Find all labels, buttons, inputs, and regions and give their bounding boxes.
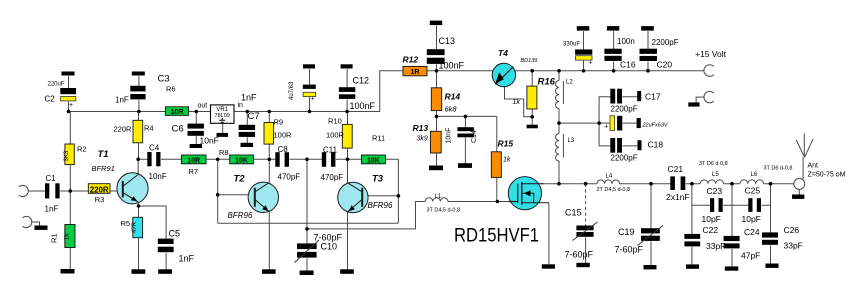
svg-text:100R: 100R [274,131,293,140]
svg-text:BFR96: BFR96 [368,201,393,210]
svg-text:C15: C15 [565,208,582,218]
svg-text:C25: C25 [745,186,761,196]
svg-text:1nF: 1nF [179,254,195,264]
ground MOSFET source [542,264,555,268]
svg-text:10pF: 10pF [702,214,721,224]
+15V connector [704,65,714,77]
svg-text:RD15HVF1: RD15HVF1 [454,225,539,247]
wire rail 9V y111 [69,71,404,112]
wire C16 column [613,31,615,71]
svg-text:R13: R13 [413,123,429,133]
capacitor C25 10pF [748,198,752,212]
svg-text:7-60pF: 7-60pF [565,250,594,260]
wire R14 column [436,71,438,117]
capacitor C24 47pF [724,236,740,241]
svg-text:1nF: 1nF [45,205,59,214]
transistor T3 BFR96 [338,182,368,212]
wire gnd connector 2 [32,222,39,226]
svg-text:3T D6 d-0,8: 3T D6 d-0,8 [764,166,793,172]
svg-text:2200pF: 2200pF [611,154,638,163]
resistor R3 220R [88,184,110,194]
svg-text:10nF: 10nF [446,128,453,144]
capacitor 4u7/63 [303,85,316,89]
wire C13 column [436,26,438,71]
svg-text:out: out [198,103,208,110]
svg-text:100nF: 100nF [439,61,465,71]
wire L3 column [558,123,560,184]
svg-text:R4: R4 [144,124,154,133]
svg-text:C6: C6 [172,124,184,135]
resistor R11 10K [361,155,385,164]
svg-text:C16: C16 [620,60,636,70]
capacitor C19 7-60pF trimmer [641,228,660,233]
wire C6 column [195,112,197,145]
capacitor C12 100nF [339,87,355,92]
svg-text:10R: 10R [171,109,184,116]
resistor R8 10K [230,155,254,164]
capacitor C15 7-60pF trimmer [576,226,593,231]
resistor R13 3k9 [430,131,441,153]
wire C1 to R3 with node [60,190,89,192]
wire 22uF row [559,122,637,124]
capacitor C18 2200pF [610,138,615,153]
wire +15 gnd connector [696,97,704,103]
resistor R6 10R [165,107,188,116]
svg-text:R1: R1 [49,233,58,243]
wire C18 branch [599,123,638,146]
svg-text:C5: C5 [169,229,181,239]
svg-text:2200pF: 2200pF [611,105,638,114]
svg-text:C10: C10 [321,242,338,252]
transistor T1 BFR91 [117,173,148,204]
svg-text:C3: C3 [158,74,170,85]
ground C13 top stub [430,21,442,26]
svg-text:C14: C14 [471,130,478,143]
svg-text:BD139: BD139 [521,58,538,64]
wire R2 column vertical [69,112,71,270]
svg-text:C24: C24 [744,227,760,237]
wire drain row y183.2 [541,183,794,185]
svg-text:L2: L2 [566,80,573,86]
wire 4u7 column [309,69,311,112]
wire C15 bottom [585,237,587,263]
ground C6 [190,144,202,148]
svg-text:1R: 1R [411,69,420,76]
svg-text:33pF: 33pF [784,241,803,251]
+15V ground connector [704,91,714,102]
wire C3 column [138,76,140,112]
svg-text:+15 Volt: +15 Volt [695,49,727,59]
wire C10 column [306,159,308,271]
inductor L2 [556,81,559,109]
svg-text:R15: R15 [498,139,514,149]
ground C3 top stub [132,72,145,76]
svg-text:10K: 10K [367,157,380,164]
wire T3 base column [397,159,399,223]
svg-text:R14: R14 [445,92,461,102]
resistor R12 1R [403,66,427,75]
resistor R9 100R [264,123,274,145]
wire R10 column [347,112,349,160]
svg-text:T3: T3 [372,174,384,185]
ground 330uF top stub [577,26,590,31]
inductor L4 [597,180,620,184]
ground C7 [241,143,254,147]
wire T1 collector [137,159,139,174]
resistor R15 1k [491,152,501,178]
svg-text:3T D6 d 0,8: 3T D6 d 0,8 [699,161,728,167]
wire R3 to T1 base [111,190,124,192]
ground C16 top stub [607,26,619,31]
svg-text:10R: 10R [187,157,200,164]
wire input to C1 [29,190,46,192]
resistor R10 100R [342,124,352,148]
svg-text:2200pF: 2200pF [652,38,679,47]
svg-text:C17: C17 [645,92,661,102]
svg-text:22uFx63V: 22uFx63V [642,123,669,129]
wire y158.8 row [138,158,398,160]
svg-text:1k: 1k [64,233,70,240]
wire T3 base lead [367,195,398,197]
capacitor C14 10nF [457,127,474,131]
capacitor C2 220uF [60,88,76,94]
capacitor C13 100nF [427,49,445,55]
svg-text:R12: R12 [403,55,419,65]
wire R15 column [496,116,498,201]
ground R5 [132,269,146,274]
svg-text:220uF: 220uF [48,82,65,88]
ground C22 [686,264,699,268]
svg-text:R2: R2 [77,145,87,154]
capacitor C7 1nF [239,125,255,130]
svg-text:L6: L6 [751,172,758,178]
svg-text:47pF: 47pF [741,251,760,261]
svg-text:R7: R7 [189,167,199,176]
svg-text:+: + [69,102,73,109]
svg-text:C2: C2 [45,95,56,104]
resistor R16 1k [527,86,537,109]
wire C26 column [770,184,772,264]
wire C12 column [346,69,348,112]
svg-text:78L09: 78L09 [215,113,230,119]
inductor L5 [700,180,723,184]
svg-text:470pF: 470pF [321,173,344,182]
resistor R2 3K3 [65,144,74,165]
wire C19 column [650,184,652,266]
svg-text:R16: R16 [538,77,556,88]
svg-text:L3: L3 [568,138,575,144]
capacitor 330uF [575,49,592,54]
svg-text:10nF: 10nF [200,136,219,146]
wire L1 to gate node [448,201,518,203]
ground C12 top stub [341,64,353,68]
capacitor 22uFx63V [610,116,615,131]
svg-text:T4: T4 [498,48,508,58]
svg-text:100R: 100R [326,131,345,140]
wire lower gate feed [307,202,425,229]
wire R16 column [531,71,533,125]
svg-text:Z=50-75 oM: Z=50-75 oM [808,172,846,179]
resistor R4 220R [133,120,143,143]
wire R9 column [268,112,270,160]
svg-text:T2: T2 [234,174,246,185]
svg-text:C12: C12 [353,76,370,86]
wire bias row y115.9 [437,115,497,117]
svg-text:100n: 100n [617,37,635,46]
node dots [69,189,73,193]
output connector circle [794,178,805,189]
svg-text:C22: C22 [703,225,719,235]
svg-text:R9: R9 [274,118,284,127]
svg-text:220R: 220R [114,125,133,134]
resistor R5 47R [133,217,143,237]
svg-text:C21: C21 [668,164,684,174]
wire T2 base lead [218,194,250,196]
svg-text:33pF: 33pF [706,241,725,251]
ground 4u7 top stub [303,64,315,68]
capacitor C22 33pF [684,234,700,239]
svg-text:10K: 10K [235,157,248,164]
svg-text:1nF: 1nF [241,93,257,103]
svg-text:4u7/63: 4u7/63 [289,81,295,100]
wire out connector to antenna [802,157,804,179]
wire R13 column [436,116,438,166]
svg-text:2T D4,5 d-0,8: 2T D4,5 d-0,8 [597,187,631,193]
ground out connector [792,195,804,199]
wire R4 column [138,112,140,160]
wire C22 column [691,184,693,265]
svg-text:6k8: 6k8 [445,105,458,114]
ground C14 [458,163,472,168]
capacitor C6 10n [188,124,204,129]
svg-text:7-60pF: 7-60pF [615,245,644,255]
svg-text:C18: C18 [648,140,664,150]
capacitor C23 10pF [710,198,714,212]
wire out connector ground [798,189,800,195]
svg-text:C4: C4 [149,144,160,153]
wire C24 column [731,184,733,267]
svg-text:C11: C11 [323,146,338,155]
svg-text:in: in [238,102,244,109]
capacitor C10 7-60pF trimmer [297,243,317,249]
transistor T4 BD139 [492,63,515,86]
ground C5 [158,269,172,274]
ground input connector 2 [35,226,48,230]
svg-text:1nF: 1nF [115,96,129,105]
wire C14 column [464,116,466,163]
svg-text:C23: C23 [707,186,723,196]
capacitor C4 10nF [147,152,151,166]
svg-text:L4: L4 [606,174,613,180]
svg-text:1k: 1k [503,157,511,164]
capacitor C16 100n [604,49,621,54]
wire T2 emitter [268,211,270,269]
svg-text:3T D4,5 d-0,8: 3T D4,5 d-0,8 [427,208,461,214]
wire T2 collector [268,159,270,182]
input connector 1 [19,185,28,196]
svg-text:470pF: 470pF [278,173,301,182]
svg-text:+: + [589,60,593,67]
svg-text:C8: C8 [278,145,289,154]
resistor R14 6k8 [431,88,441,111]
wire pi filter branch y204.8 [692,204,771,206]
svg-text:R8: R8 [219,148,229,157]
ground +15 connector 2 [688,102,699,106]
input connector 2 ground plug [23,216,32,227]
svg-text:+: + [311,96,315,103]
wire rail 15V y70 [428,70,704,72]
antenna [796,134,813,158]
capacitor C11 470pF [322,152,326,167]
wire L2 column [558,71,560,123]
inductor L3 [556,134,559,162]
capacitor C5 1nF [158,239,174,244]
transistor T2 BFR96 [248,182,278,212]
inductor L1 [425,198,448,202]
wire C17 branch [599,97,638,123]
svg-text:3K3: 3K3 [64,150,70,161]
wire C7 column [246,112,248,144]
wire T3 collector [347,159,349,183]
MOSFET RD15HVF1 [508,177,541,210]
svg-text:C1: C1 [46,174,57,183]
wire T3 emitter [347,212,349,270]
svg-text:C13: C13 [439,36,456,46]
ground C10 [300,271,314,276]
ground C19 [644,265,657,269]
ground R1 [61,269,75,274]
svg-text:C7: C7 [248,111,260,122]
VR1 78L09 regulator box [211,105,235,123]
svg-text:T1: T1 [98,149,109,160]
ground VR1 [217,133,229,137]
svg-text:+: + [604,124,608,131]
svg-text:330uF: 330uF [563,42,580,48]
capacitor C3 1nF [130,86,145,92]
wire T2 base column [217,159,219,223]
ground T3 emitter [340,269,354,274]
wire C20 column [647,31,649,71]
wire VR1 ground [222,124,224,134]
resistor R7 10R [181,155,206,164]
wire T4 emitter path [505,87,533,117]
svg-text:Ant: Ant [808,163,819,170]
svg-text:10pF: 10pF [742,214,761,224]
svg-text:100nF: 100nF [350,101,376,111]
svg-text:R5: R5 [121,219,131,228]
capacitor C8 470pF [275,152,279,167]
ground C20 top stub [641,26,654,31]
svg-text:C26: C26 [784,225,800,235]
ground C24 [725,266,739,270]
svg-text:L5: L5 [712,172,719,178]
svg-text:3k9: 3k9 [417,136,428,143]
wire T1 emitter node branch to C5 [138,202,166,270]
svg-text:R3: R3 [95,195,105,204]
svg-text:R6: R6 [166,85,176,94]
ground R16 [527,125,538,129]
svg-text:C19: C19 [618,227,635,237]
svg-text:2x1nF: 2x1nF [666,192,690,202]
wire C15 dashed lead [585,184,587,226]
wire C2 column [68,76,70,112]
capacitor C20 2200pF [640,49,658,54]
svg-text:L1: L1 [435,194,442,200]
svg-text:BFR91: BFR91 [92,164,115,173]
ground C26 [766,264,779,268]
svg-text:47R: 47R [132,221,138,233]
ground R13 [429,166,443,171]
svg-text:R10: R10 [328,117,342,126]
svg-text:220R: 220R [90,185,109,194]
capacitor C1 1nF [45,183,49,198]
svg-text:BFR96: BFR96 [228,211,253,220]
capacitor C17 2200pF [610,89,615,104]
resistor R1 1k [65,225,75,248]
capacitor C26 33pF [762,232,778,237]
wire MOSFET source [548,203,550,265]
svg-text:1k: 1k [513,99,521,106]
wire feedback loop y222.7 [218,222,399,224]
wire 330uF column [583,31,585,71]
ground C2 top stub [62,72,75,76]
svg-text:C20: C20 [657,60,673,70]
inductor L6 [740,180,764,184]
svg-text:R11: R11 [372,134,385,143]
ground C15 [576,263,589,267]
svg-text:10nF: 10nF [149,172,167,181]
ground T2 emitter [262,269,276,274]
capacitor C21 2x1nF [670,176,675,190]
